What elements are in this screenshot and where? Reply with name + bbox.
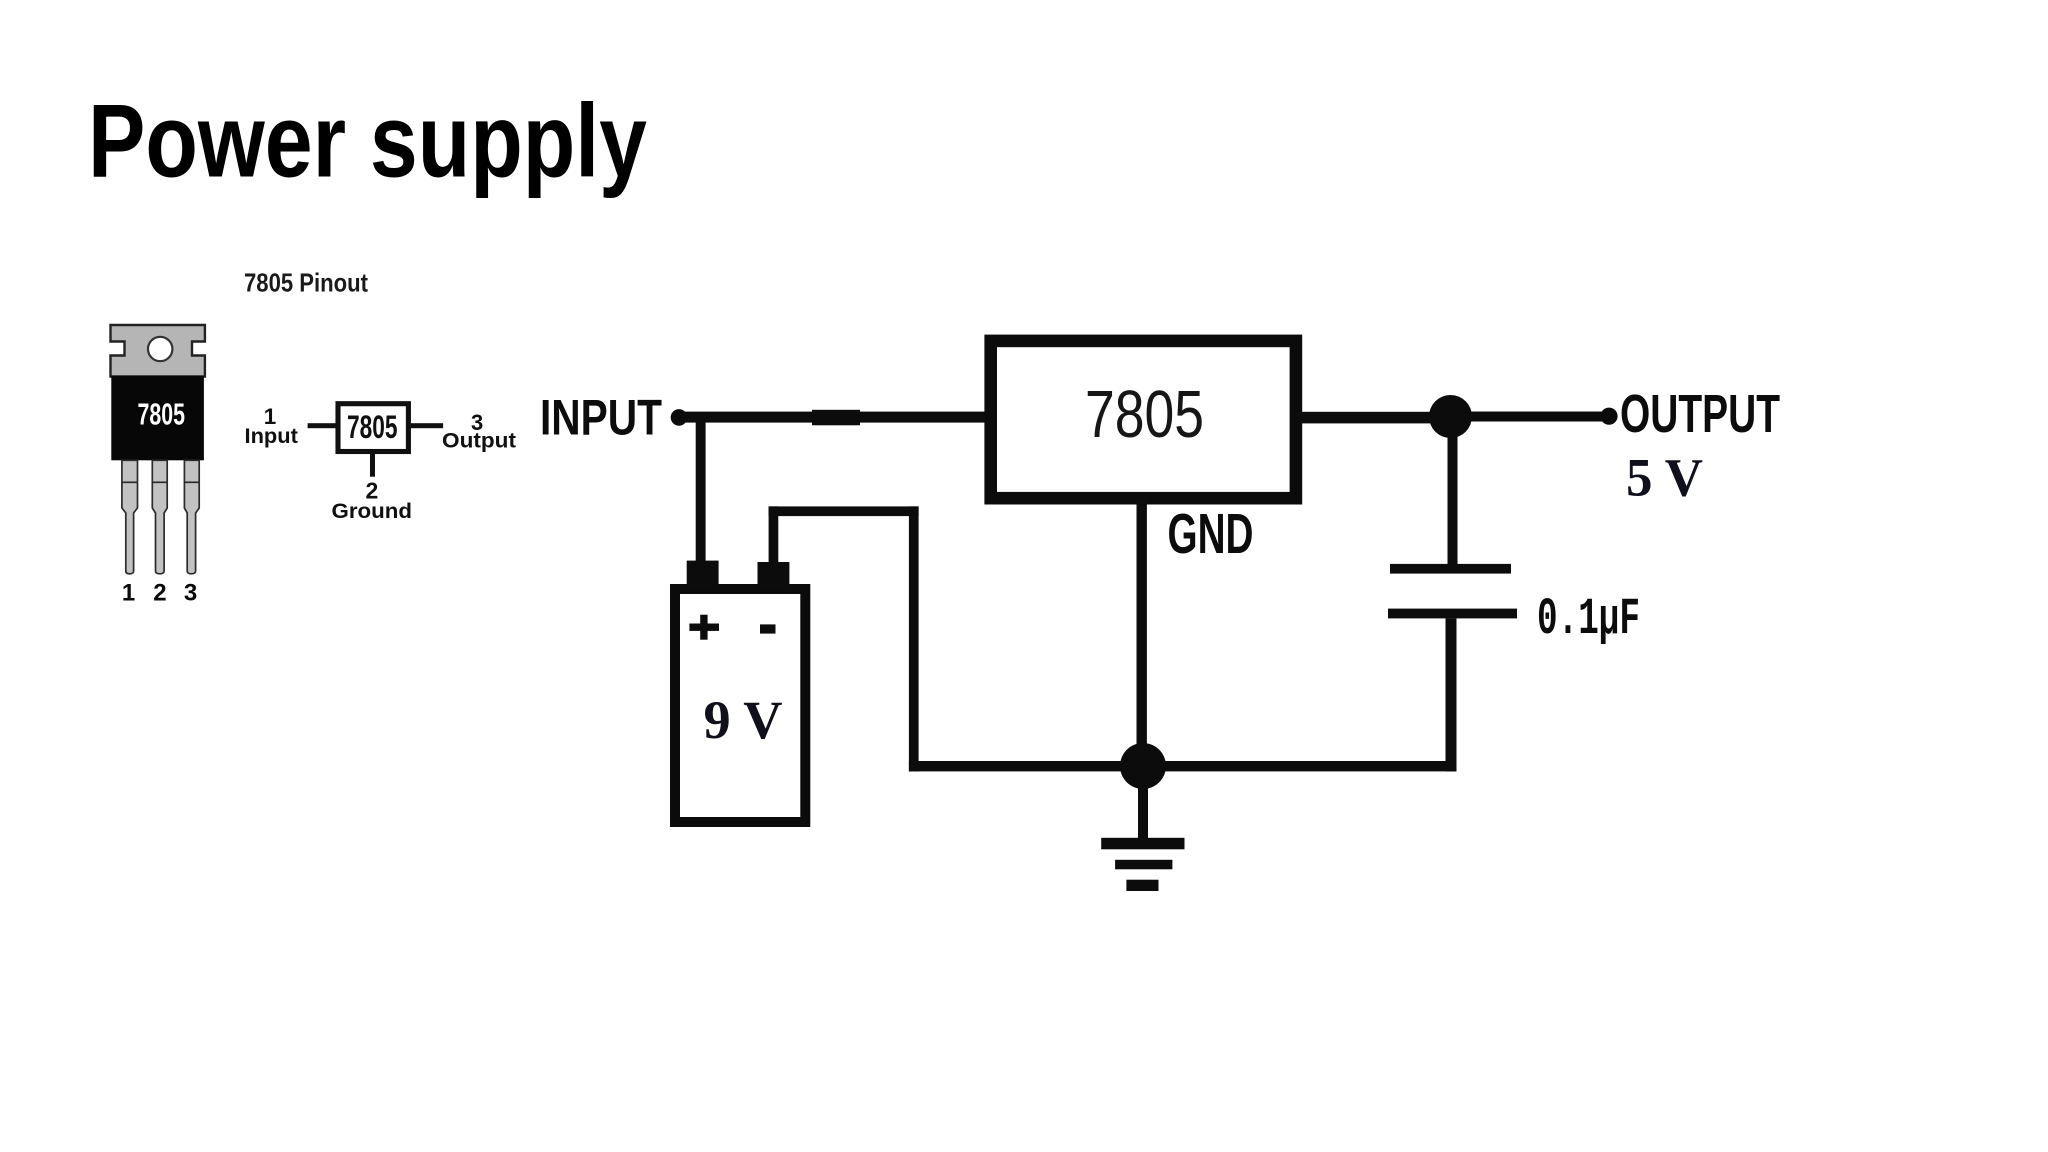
node: input terminal dot <box>671 409 688 426</box>
pin2 lead line <box>370 454 375 477</box>
svg-text:INPUT: INPUT <box>540 390 662 446</box>
junction: ground node dot <box>1120 743 1166 789</box>
wire: stub from junction to ground symbol <box>1138 766 1148 838</box>
ground symbol bar 2 <box>1115 860 1172 870</box>
wire: minus riser horizontal top <box>769 506 919 516</box>
capacitor C1 bottom plate <box>1388 609 1517 619</box>
ground symbol bar 1 <box>1101 838 1184 850</box>
svg-text:7805: 7805 <box>1085 378 1204 452</box>
TO-220 mounting hole <box>148 337 172 361</box>
regulator U2 7805 box <box>991 341 1296 498</box>
wire: input horizontal to regulator <box>677 412 985 423</box>
pin3 lead line <box>411 423 443 428</box>
wire: down leg to ground rail <box>909 506 919 771</box>
svg-text:3: 3 <box>184 580 197 607</box>
main schematic <box>540 341 1780 891</box>
svg-text:Ground: Ground <box>332 499 413 523</box>
svg-text:Output: Output <box>442 429 516 453</box>
node: output terminal dot <box>1600 408 1617 425</box>
svg-text:9 V: 9 V <box>704 690 783 750</box>
svg-text:1: 1 <box>122 580 135 607</box>
battery minus sign <box>760 624 776 633</box>
battery minus terminal block <box>758 562 790 587</box>
TO-220 metal tab with notches <box>111 325 205 377</box>
pin1 lead line <box>308 423 336 428</box>
mini 7805 box <box>338 404 408 452</box>
wire: regulator output to junction <box>1296 412 1454 424</box>
svg-text:Power supply: Power supply <box>88 84 647 200</box>
battery plus sign <box>689 624 719 631</box>
battery plus terminal block <box>687 561 719 587</box>
svg-text:OUTPUT: OUTPUT <box>1620 385 1780 444</box>
wire: GND vertical from regulator to ground rail <box>1137 498 1147 766</box>
svg-text:2: 2 <box>153 580 166 607</box>
wire: bottom ground rail <box>909 761 1457 771</box>
IC package U1: TO-220 front view <box>111 325 205 607</box>
wire: vertical from output junction down to capacitor <box>1448 434 1458 564</box>
svg-text:Input: Input <box>245 424 298 448</box>
pin 2 lead <box>152 460 167 574</box>
svg-text:GND: GND <box>1168 502 1254 566</box>
battery B1 outer case <box>675 589 805 822</box>
junction: output node dot <box>1429 395 1472 438</box>
wire: battery minus riser up <box>769 506 779 564</box>
svg-text:0.1µF: 0.1µF <box>1537 590 1640 649</box>
pin 3 lead <box>184 460 199 574</box>
wire: thickened scan segment <box>812 410 860 426</box>
svg-text:5 V: 5 V <box>1626 448 1703 508</box>
TO-220 black plastic body <box>111 376 204 460</box>
svg-text:7805: 7805 <box>138 397 186 432</box>
wire: junction to output terminal <box>1450 412 1608 422</box>
wire: input node down to battery plus terminal <box>696 417 706 562</box>
capacitor C1 top plate <box>1390 564 1511 574</box>
ground symbol bar 3 <box>1126 880 1158 891</box>
pinout mini diagram <box>245 404 517 523</box>
pin 1 lead <box>122 460 138 574</box>
svg-text:7805 Pinout: 7805 Pinout <box>244 268 368 298</box>
svg-text:7805: 7805 <box>347 409 398 445</box>
wire: capacitor bottom to ground rail riser <box>1446 618 1457 771</box>
